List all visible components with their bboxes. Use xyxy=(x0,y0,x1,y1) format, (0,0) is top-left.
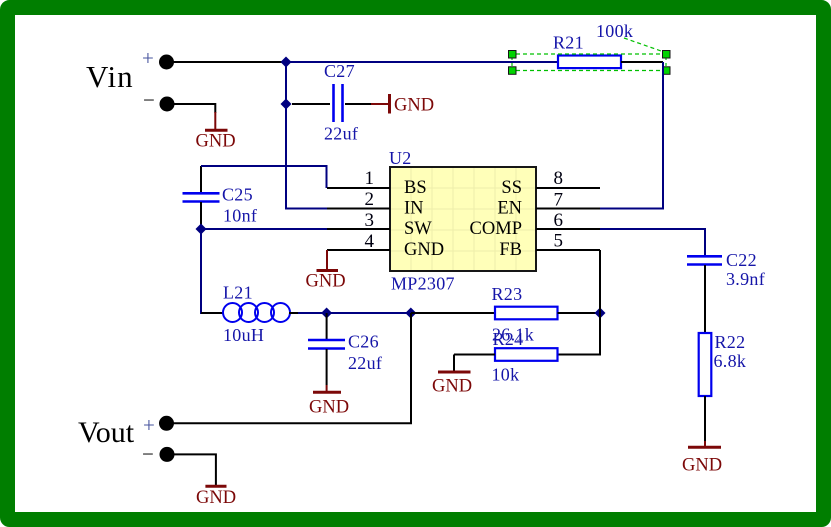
svg-text:22uf: 22uf xyxy=(348,353,382,373)
svg-text:Vout: Vout xyxy=(78,416,135,449)
selection handles R21 xyxy=(509,38,671,74)
node A junction xyxy=(281,57,292,68)
pin 4 xyxy=(327,231,390,252)
svg-text:C26: C26 xyxy=(348,332,379,352)
ground Vin- xyxy=(196,112,236,152)
resistor R21 (selected) xyxy=(553,21,633,68)
svg-text:R23: R23 xyxy=(492,284,523,304)
svg-text:Vin: Vin xyxy=(86,59,134,94)
svg-text:C22: C22 xyxy=(726,250,757,270)
svg-text:U2: U2 xyxy=(389,148,412,168)
svg-text:C27: C27 xyxy=(324,61,355,81)
svg-text:10nf: 10nf xyxy=(223,206,257,226)
wire SW node xyxy=(201,228,327,230)
resistor R22 xyxy=(699,332,747,441)
pin 8 xyxy=(536,168,600,189)
IC U2 xyxy=(389,148,536,294)
pin 2 xyxy=(327,189,390,210)
ground C26 xyxy=(309,385,349,418)
svg-text:10k: 10k xyxy=(492,365,520,385)
svg-text:GND: GND xyxy=(196,132,236,152)
port Vin xyxy=(86,46,175,112)
svg-text:MP2307: MP2307 xyxy=(391,274,455,294)
capacitor C22 xyxy=(687,250,765,333)
inductor L21 xyxy=(201,283,298,346)
svg-text:8: 8 xyxy=(554,168,564,189)
svg-text:COMP: COMP xyxy=(470,219,522,239)
svg-text:22uf: 22uf xyxy=(324,124,358,144)
capacitor C25 xyxy=(183,166,258,229)
wire Vin+ to node A xyxy=(171,61,286,63)
svg-text:GND: GND xyxy=(404,240,444,260)
pin 1 xyxy=(327,168,390,189)
svg-text:+: + xyxy=(143,413,155,437)
svg-text:L21: L21 xyxy=(223,283,253,303)
ground Vout- xyxy=(196,486,236,508)
resistor R23 xyxy=(492,284,601,345)
node D junction xyxy=(405,308,416,319)
svg-text:C25: C25 xyxy=(222,185,253,205)
ground U2 pin4 xyxy=(306,250,346,292)
svg-text:100k: 100k xyxy=(596,21,633,41)
node E junction xyxy=(595,308,606,319)
wire R21 to EN xyxy=(600,62,663,209)
ground C27 xyxy=(371,94,434,116)
svg-text:IN: IN xyxy=(404,199,424,219)
wire Vin- to GND xyxy=(171,104,215,113)
capacitor C26 xyxy=(308,313,382,385)
pin 7 xyxy=(536,190,600,211)
svg-text:SW: SW xyxy=(404,219,432,239)
port Vout xyxy=(78,413,175,466)
svg-text:GND: GND xyxy=(309,398,349,418)
svg-text:+: + xyxy=(142,46,154,70)
svg-text:GND: GND xyxy=(432,377,472,397)
pin 5 xyxy=(536,231,600,252)
node C junction xyxy=(321,308,332,319)
svg-text:10uH: 10uH xyxy=(223,325,264,345)
svg-text:1: 1 xyxy=(365,168,375,189)
svg-text:SS: SS xyxy=(501,178,522,198)
wire FB to node E xyxy=(599,250,601,313)
svg-text:5: 5 xyxy=(554,231,564,252)
svg-text:6.8k: 6.8k xyxy=(714,351,747,371)
svg-text:4: 4 xyxy=(365,231,375,252)
svg-text:R24: R24 xyxy=(493,329,524,349)
svg-text:FB: FB xyxy=(499,240,522,260)
ground R24 xyxy=(432,355,472,397)
wire node D to R23 xyxy=(411,312,495,314)
svg-text:7: 7 xyxy=(554,190,564,211)
svg-text:−: − xyxy=(142,442,154,466)
wire C25 top to BS pin1 xyxy=(201,166,327,188)
svg-text:3.9nf: 3.9nf xyxy=(726,269,765,289)
svg-text:6: 6 xyxy=(554,210,564,231)
wire node D down to Vout+ xyxy=(171,313,411,423)
pin 6 xyxy=(536,210,600,231)
svg-text:3: 3 xyxy=(365,210,375,231)
resistor R24 xyxy=(454,329,558,385)
node B junction xyxy=(281,99,292,110)
wire L21 to node C and D xyxy=(298,312,411,314)
ground R22 xyxy=(682,441,722,476)
svg-text:−: − xyxy=(143,88,155,112)
wire node A down to node B and IN xyxy=(286,62,327,209)
pin 3 xyxy=(327,210,390,231)
svg-text:R22: R22 xyxy=(715,332,746,352)
wire node A to R21 xyxy=(286,61,558,63)
wire SW down to L21 xyxy=(201,229,222,313)
svg-text:GND: GND xyxy=(682,456,722,476)
svg-text:2: 2 xyxy=(365,189,375,210)
svg-text:R21: R21 xyxy=(553,33,584,53)
node SW junction xyxy=(196,224,207,235)
wire COMP to C22 xyxy=(600,229,705,256)
svg-text:EN: EN xyxy=(497,199,522,219)
svg-text:GND: GND xyxy=(394,96,434,116)
wire node E to R24 xyxy=(558,313,601,355)
capacitor C27 xyxy=(292,61,371,144)
svg-text:GND: GND xyxy=(306,272,346,292)
wire Vout- to GND xyxy=(171,454,216,485)
svg-text:BS: BS xyxy=(404,178,427,198)
svg-text:GND: GND xyxy=(196,488,236,508)
